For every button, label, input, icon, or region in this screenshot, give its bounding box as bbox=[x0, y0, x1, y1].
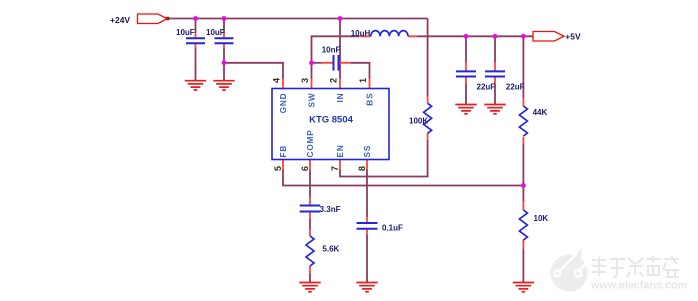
svg-text:7: 7 bbox=[330, 166, 340, 171]
svg-text:10uH: 10uH bbox=[351, 29, 371, 38]
svg-text:COMP: COMP bbox=[306, 129, 315, 157]
svg-text:BS: BS bbox=[365, 93, 374, 106]
svg-text:100K: 100K bbox=[409, 117, 428, 126]
svg-text:2: 2 bbox=[329, 78, 339, 83]
svg-text:8: 8 bbox=[357, 166, 367, 171]
svg-text:3.3nF: 3.3nF bbox=[320, 205, 341, 214]
svg-text:+5V: +5V bbox=[565, 32, 581, 42]
svg-text:10uF: 10uF bbox=[176, 28, 195, 37]
svg-text:SS: SS bbox=[363, 145, 372, 158]
svg-text:FB: FB bbox=[279, 145, 288, 158]
svg-text:www.elecfans.com: www.elecfans.com bbox=[590, 280, 687, 292]
svg-text:SW: SW bbox=[307, 93, 316, 108]
svg-text:44K: 44K bbox=[533, 108, 548, 117]
svg-text:10uF: 10uF bbox=[206, 28, 225, 37]
svg-text:EN: EN bbox=[336, 144, 345, 157]
svg-text:5.6K: 5.6K bbox=[322, 245, 339, 254]
svg-text:0.1uF: 0.1uF bbox=[382, 224, 403, 233]
svg-text:GND: GND bbox=[279, 93, 288, 114]
svg-text:1: 1 bbox=[358, 78, 368, 83]
svg-text:22uF: 22uF bbox=[477, 83, 496, 92]
svg-text:10nF: 10nF bbox=[322, 45, 341, 54]
svg-text:IN: IN bbox=[336, 93, 345, 103]
svg-text:6: 6 bbox=[300, 166, 310, 171]
svg-text:5: 5 bbox=[273, 166, 283, 171]
svg-text:KTG 8504: KTG 8504 bbox=[309, 115, 354, 126]
svg-text:22uF: 22uF bbox=[506, 83, 525, 92]
svg-text:3: 3 bbox=[300, 78, 310, 83]
svg-text:+24V: +24V bbox=[110, 15, 130, 25]
svg-text:10K: 10K bbox=[534, 214, 549, 223]
svg-text:4: 4 bbox=[272, 77, 282, 83]
